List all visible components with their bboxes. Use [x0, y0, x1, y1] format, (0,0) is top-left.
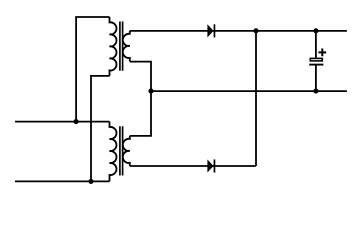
capacitor C1 top plate: [310, 58, 322, 61]
wire T1 secondary bottom to center-tap node: [130, 62, 151, 92]
junction upper input / T1 primary feed: [74, 119, 79, 124]
transformer T2 secondary winding: [123, 136, 130, 166]
transformer T1 secondary winding: [123, 31, 130, 62]
capacitor C1 bottom plate: [309, 64, 323, 66]
junction mid rail / capacitor: [313, 89, 318, 94]
wire mid rail from center-tap node to right end: [151, 90, 347, 92]
junction top rail / capacitor: [313, 28, 318, 33]
capacitor C1 plus polarity mark: [318, 49, 326, 57]
junction top rail / riser: [253, 28, 258, 33]
junction center-tap node on mid rail: [148, 89, 153, 94]
diode D1 cathode bar: [214, 24, 216, 37]
wire center-tap node down to T2 secondary top: [130, 91, 151, 136]
junction lower input / T1 primary return: [88, 179, 93, 184]
diode D2 triangle: [207, 159, 213, 172]
wire T1 primary bottom jog down to lower input junction: [91, 76, 110, 181]
capacitor C1 top lead: [315, 31, 317, 58]
transformer T2 primary winding: [110, 122, 117, 182]
wire riser from bottom rail up to top rail: [255, 31, 257, 166]
wire lower input line: [15, 180, 110, 182]
wire bottom rail from T2 secondary to riser: [130, 165, 256, 167]
diode D2 cathode bar: [214, 159, 216, 172]
capacitor C1 bottom lead: [315, 66, 317, 92]
wire from upper input junction up and over to T1 primary top: [76, 17, 109, 122]
transformer T2 core: [120, 126, 123, 175]
transformer T1 primary winding: [110, 17, 117, 76]
wire top rail from T1 secondary to right end: [130, 30, 347, 32]
diode D1 triangle: [207, 24, 213, 37]
wire upper input line: [15, 121, 110, 123]
transformer T1 core: [120, 22, 123, 71]
